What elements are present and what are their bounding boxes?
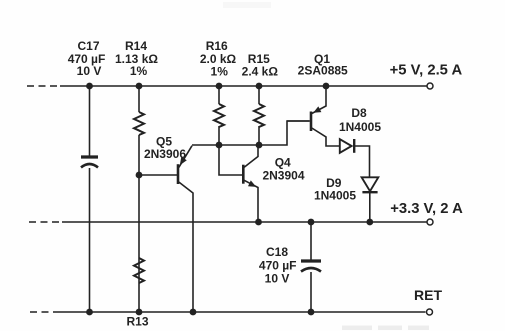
svg-text:C17: C17 [77,39,99,53]
svg-text:D8: D8 [351,106,367,120]
svg-text:10 V: 10 V [265,272,290,286]
svg-text:R13: R13 [126,315,148,329]
svg-text:+3.3 V, 2 A: +3.3 V, 2 A [390,201,463,217]
svg-text:2SA0885: 2SA0885 [298,63,348,77]
svg-text:RET: RET [414,287,442,303]
svg-text:+5 V, 2.5 A: +5 V, 2.5 A [390,63,463,79]
svg-text:2N3906: 2N3906 [144,147,186,161]
svg-text:1%: 1% [211,65,229,79]
svg-text:470 µF: 470 µF [259,259,297,273]
svg-text:R16: R16 [206,39,228,53]
svg-text:1N4005: 1N4005 [314,188,356,202]
svg-text:10 V: 10 V [77,64,102,78]
svg-text:Q5: Q5 [156,134,172,148]
svg-text:1N4005: 1N4005 [339,120,381,134]
svg-text:2N3904: 2N3904 [262,168,304,182]
svg-text:Q4: Q4 [275,155,291,169]
svg-text:R14: R14 [125,39,147,53]
svg-text:2.4 kΩ: 2.4 kΩ [242,65,279,79]
svg-text:1%: 1% [130,64,148,78]
svg-text:C18: C18 [266,245,288,259]
